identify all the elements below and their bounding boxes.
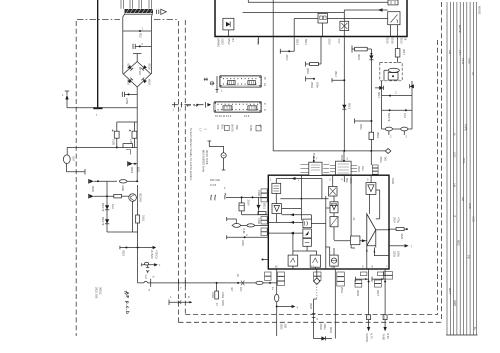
svg-text:2159: 2159 bbox=[125, 98, 129, 104]
resistor vertical right column bbox=[397, 37, 399, 49]
IC internal: box H bbox=[310, 255, 320, 267]
bus wire 6 bbox=[463, 2, 465, 335]
svg-text:6522: 6522 bbox=[329, 327, 333, 333]
bridge diode top-right bbox=[141, 65, 147, 71]
fuse F1 on rail bbox=[123, 144, 133, 148]
CN2 corner pins bbox=[215, 102, 216, 103]
svg-text:DIAL: DIAL bbox=[462, 158, 466, 164]
svg-text:6514: 6514 bbox=[377, 92, 381, 98]
svg-text:8.5V: 8.5V bbox=[386, 334, 390, 340]
svg-text:IF: IF bbox=[453, 215, 457, 218]
bus wire 3 bbox=[453, 2, 455, 335]
mains rail wire bbox=[67, 107, 138, 109]
svg-text:630 11D: 630 11D bbox=[210, 178, 220, 182]
smoothing caps top rail bbox=[117, 122, 137, 131]
resistor Rv in rail bbox=[136, 215, 140, 223]
dash-dot frame outer right vertical (x=178) bbox=[177, 21, 179, 322]
connector CN2 outer bbox=[214, 101, 262, 112]
stub row y=79 bbox=[306, 76, 314, 81]
svg-text:AF R: AF R bbox=[461, 58, 465, 64]
svg-text:100µ: 100µ bbox=[323, 324, 327, 330]
cap box in loop bbox=[239, 203, 244, 211]
svg-text:4µ7: 4µ7 bbox=[144, 275, 148, 280]
bus wire 7 bbox=[466, 2, 468, 335]
oval cap at top right bbox=[387, 128, 389, 130]
diode at bottom bbox=[321, 336, 325, 340]
svg-text:30mV TAPE: 30mV TAPE bbox=[205, 150, 209, 165]
svg-text:BY: BY bbox=[231, 39, 235, 43]
top small box M1 bbox=[388, 0, 398, 5]
svg-text:15: 15 bbox=[263, 77, 267, 80]
svg-text:NOISE: NOISE bbox=[478, 6, 482, 15]
arrow ticks bbox=[211, 195, 216, 201]
bus wire 8 bbox=[469, 2, 471, 335]
diode on x=344 bbox=[342, 105, 346, 109]
test stub connector bbox=[169, 300, 192, 306]
secondary rung 1 bbox=[123, 30, 152, 32]
svg-text:2155: 2155 bbox=[112, 139, 116, 145]
divider chain below rail bbox=[216, 283, 218, 291]
crossing ticks bbox=[312, 313, 316, 317]
row 1: diode input bbox=[88, 179, 90, 184]
lamp return wire bbox=[67, 164, 85, 172]
svg-text:2511: 2511 bbox=[359, 124, 363, 130]
svg-text:LED: LED bbox=[453, 152, 457, 157]
zener diode D2 bbox=[105, 219, 109, 223]
caps below IC right pins bbox=[356, 277, 386, 282]
diamond test terminal bbox=[385, 149, 390, 154]
svg-text:BZX79: BZX79 bbox=[101, 217, 105, 226]
svg-text:2165: 2165 bbox=[257, 190, 261, 196]
svg-text:BZX79: BZX79 bbox=[387, 113, 391, 122]
svg-text:1518: 1518 bbox=[312, 153, 316, 159]
zener diode D1 bbox=[105, 205, 109, 209]
filter block FL1 above IC bbox=[309, 162, 322, 175]
svg-text:3515: 3515 bbox=[357, 54, 361, 60]
wire across to diamond bbox=[273, 150, 385, 152]
IC internal: X box bbox=[329, 187, 338, 197]
svg-text:1µ: 1µ bbox=[271, 287, 275, 290]
svg-text:1520: 1520 bbox=[391, 178, 395, 184]
svg-text:12: 12 bbox=[311, 265, 314, 269]
svg-text:6520: 6520 bbox=[91, 186, 95, 192]
svg-text:100n: 100n bbox=[221, 300, 225, 306]
jack wire down bbox=[222, 158, 226, 170]
svg-text:479 C6: 479 C6 bbox=[155, 250, 159, 259]
svg-text:OSC: OSC bbox=[468, 203, 472, 209]
resistor R oval on row1 bbox=[119, 180, 127, 183]
svg-text:30012: 30012 bbox=[99, 287, 103, 295]
svg-text:220V: 220V bbox=[221, 39, 225, 45]
svg-text:100n: 100n bbox=[397, 251, 401, 257]
bridge diode bot-right bbox=[141, 78, 147, 84]
node dot bbox=[116, 146, 118, 148]
svg-text:220n: 220n bbox=[241, 240, 245, 246]
svg-text:6517: 6517 bbox=[127, 64, 131, 70]
svg-text:AF p.c.b: AF p.c.b bbox=[125, 292, 130, 315]
svg-text:BC548: BC548 bbox=[139, 194, 143, 203]
wire bridge bottom bbox=[136, 87, 138, 108]
CN2 left dash stub bbox=[172, 104, 205, 106]
svg-text:2529: 2529 bbox=[319, 324, 323, 330]
svg-text:RADIO: RADIO bbox=[365, 334, 369, 343]
diode box D1 bbox=[223, 18, 234, 30]
stub arrow right bbox=[277, 306, 292, 308]
bold box outline bbox=[215, 0, 407, 37]
svg-text:B+: B+ bbox=[473, 327, 477, 331]
zener left of loop bbox=[379, 86, 383, 90]
svg-text:REC: REC bbox=[457, 240, 461, 246]
resistor on 3V rail bbox=[237, 282, 239, 284]
capacitor C 4u7 bbox=[146, 265, 149, 273]
label boxes under CN2 bbox=[224, 126, 229, 131]
main bus wire down from box bbox=[272, 0, 274, 151]
svg-text:MOT: MOT bbox=[448, 288, 452, 294]
IC internal: hatch box D bbox=[330, 217, 338, 227]
pin y=259.5 bbox=[263, 259, 269, 261]
svg-text:1083: 1083 bbox=[349, 178, 353, 184]
jumper arc bbox=[144, 281, 148, 283]
row y=237.3 input bbox=[227, 235, 269, 239]
bus wire 9 bbox=[472, 2, 474, 335]
svg-text:2166: 2166 bbox=[257, 218, 261, 224]
svg-text:2524: 2524 bbox=[393, 217, 397, 223]
diode right of loop bbox=[410, 84, 414, 88]
svg-text:B+: B+ bbox=[453, 133, 457, 137]
svg-text:1k5: 1k5 bbox=[384, 157, 388, 162]
svg-text:1n: 1n bbox=[215, 303, 219, 306]
transformer secondary leads bbox=[123, 13, 153, 74]
wire main V rail down bbox=[136, 108, 138, 148]
pilot arrow symbol bbox=[157, 10, 159, 14]
row 2: diode input bbox=[88, 194, 90, 199]
dash-dot frame inner left (x=185) bbox=[184, 20, 186, 315]
resistor in x=371.4 bbox=[369, 132, 374, 139]
diode in loop bbox=[256, 205, 260, 209]
row 3V out B bbox=[138, 248, 155, 267]
svg-text:LF: LF bbox=[259, 125, 263, 128]
IC left pin stacks bbox=[261, 189, 267, 193]
wire bbox=[122, 31, 124, 74]
CN2 key block B bbox=[248, 106, 257, 110]
IC internal: box L bbox=[351, 236, 360, 245]
svg-text:6519: 6519 bbox=[130, 167, 134, 173]
svg-text:6515: 6515 bbox=[148, 79, 152, 85]
loop bottom with ovals bbox=[382, 128, 412, 130]
filter box bbox=[388, 73, 398, 80]
svg-text:5513: 5513 bbox=[296, 39, 300, 45]
svg-text:3516: 3516 bbox=[376, 132, 380, 138]
wire up to IC pin bbox=[334, 269, 336, 339]
svg-text:2523: 2523 bbox=[379, 157, 383, 163]
svg-text:1512: 1512 bbox=[256, 39, 260, 45]
svg-text:3162: 3162 bbox=[211, 292, 215, 298]
wire bbox=[136, 147, 138, 181]
svg-text:12 9: 12 9 bbox=[244, 114, 250, 118]
row 3V out A bbox=[120, 246, 153, 249]
crystal box X1 bbox=[340, 21, 349, 30]
svg-text:MAINS: MAINS bbox=[217, 39, 221, 48]
jack circle bbox=[221, 153, 226, 158]
svg-text:8.7V: 8.7V bbox=[370, 334, 374, 340]
svg-text:3160: 3160 bbox=[121, 185, 125, 191]
capacitor C stub left of bridge output bbox=[122, 92, 137, 97]
svg-text:6512: 6512 bbox=[227, 39, 231, 45]
left resistor chain under box bbox=[318, 37, 321, 65]
capacitor C1154 bbox=[114, 131, 119, 138]
output resistor right of IC bbox=[396, 228, 404, 231]
output line B+ 2 bbox=[384, 269, 386, 330]
svg-text:6513: 6513 bbox=[348, 103, 352, 109]
svg-text:AGC: AGC bbox=[472, 216, 476, 222]
capacitor C1155 bbox=[132, 131, 137, 138]
dash-dot frame inner bottom (y=314.5) bbox=[185, 314, 437, 316]
fuse terminal X bbox=[93, 107, 102, 109]
bead on 3V rail bbox=[256, 281, 263, 284]
wire bridge top feed bbox=[133, 54, 141, 62]
svg-text:5516: 5516 bbox=[391, 38, 395, 44]
svg-text:2822: 2822 bbox=[280, 324, 284, 330]
resistor row y=49 bbox=[352, 46, 355, 53]
svg-text:VOL: VOL bbox=[216, 125, 220, 131]
IC internal: power amp triangle K bbox=[367, 214, 376, 246]
wire down to 3V rail bbox=[137, 265, 139, 283]
loop wires bbox=[382, 81, 412, 129]
svg-text:2510: 2510 bbox=[310, 82, 314, 88]
filter oval bbox=[388, 68, 399, 72]
svg-text:TAPE: TAPE bbox=[464, 124, 468, 131]
CN2 pin dots row2 bbox=[218, 109, 259, 111]
capacitor C2 on rung 2 bbox=[133, 44, 151, 49]
inner line y=5 bbox=[248, 0, 388, 2]
svg-text:BZX79: BZX79 bbox=[101, 203, 105, 212]
zener chain wire bbox=[106, 181, 108, 232]
IC bottom pin stacks bbox=[265, 272, 271, 276]
CN1 left harness bbox=[204, 78, 208, 81]
output line B+ 1 bbox=[368, 269, 370, 330]
dotted continuation under diamond bbox=[316, 284, 318, 299]
svg-text:MUTE: MUTE bbox=[458, 25, 462, 33]
diode on x=371.4 bbox=[369, 55, 373, 59]
stub wire with terminal bbox=[280, 37, 294, 54]
svg-text:L7: L7 bbox=[199, 129, 203, 132]
wire x=344 down bbox=[343, 37, 345, 151]
svg-text:2514: 2514 bbox=[285, 55, 289, 61]
transformer T1 core (hatched bar) bbox=[125, 9, 154, 13]
lamp E07 bbox=[66, 147, 68, 155]
dash-dot frame outer top bbox=[77, 19, 178, 21]
svg-text:3510: 3510 bbox=[306, 68, 310, 74]
svg-text:4k7: 4k7 bbox=[230, 287, 234, 292]
svg-text:15 10 11 13 6: 15 10 11 13 6 bbox=[215, 114, 232, 118]
IC internal: tri box C bbox=[330, 202, 338, 213]
svg-text:6516: 6516 bbox=[127, 79, 131, 85]
bottom tie wire bbox=[107, 231, 138, 233]
bus wire 4 bbox=[456, 2, 458, 335]
IC outline bbox=[268, 175, 389, 269]
wire bbox=[294, 19, 318, 37]
svg-text:2526: 2526 bbox=[356, 290, 360, 296]
svg-text:2822 265: 2822 265 bbox=[95, 287, 99, 299]
svg-text:2164: 2164 bbox=[247, 200, 251, 206]
svg-text:MEASURED 1kHz: MEASURED 1kHz bbox=[202, 150, 206, 173]
svg-text:10µ: 10µ bbox=[361, 166, 365, 171]
svg-text:0.3 8: 0.3 8 bbox=[210, 183, 216, 187]
svg-text:TAPE: TAPE bbox=[382, 334, 386, 341]
svg-text:104: 104 bbox=[239, 287, 243, 292]
dash-dot frame outer left bbox=[75, 21, 77, 336]
svg-text:GND: GND bbox=[453, 300, 457, 306]
jumper bar bbox=[150, 279, 152, 287]
svg-text:AF L: AF L bbox=[458, 50, 462, 56]
svg-text:100n: 100n bbox=[316, 82, 320, 88]
svg-text:16: 16 bbox=[263, 83, 267, 86]
transistor TS1 bbox=[129, 194, 137, 202]
wire bbox=[137, 185, 139, 248]
relay box K1 bbox=[318, 13, 327, 23]
switch box S1 bbox=[388, 12, 400, 25]
bridge diode top-left bbox=[128, 65, 134, 71]
IC internal: tri box B bbox=[272, 204, 282, 214]
CN1 key block B bbox=[248, 81, 255, 85]
labels above IC right bbox=[370, 151, 372, 165]
inner line y=12.6 bbox=[243, 12, 345, 14]
svg-text:3521: 3521 bbox=[400, 234, 404, 240]
svg-text:C12: C12 bbox=[111, 204, 115, 209]
dashed filter enclosure bbox=[380, 63, 402, 81]
svg-text:TAPE: TAPE bbox=[249, 125, 253, 132]
bridge rectifier GR1 bbox=[123, 62, 150, 88]
bus wire 5 bbox=[459, 2, 461, 335]
resistor R box row2 bbox=[114, 195, 122, 198]
stub at 344 bbox=[332, 78, 344, 82]
diode D BZX at V rail bbox=[127, 161, 129, 166]
connector CN1 outer bbox=[219, 76, 261, 88]
svg-text:RES: RES bbox=[122, 251, 126, 257]
IC internal: box G bbox=[288, 255, 298, 266]
IC internal: tri box J bbox=[366, 183, 376, 195]
CN1 corner pins bbox=[220, 76, 221, 77]
input loop left of IC bbox=[226, 197, 267, 214]
diamond under pin bbox=[314, 278, 320, 284]
svg-text:Tuned in Mono in Radio, TA and: Tuned in Mono in Radio, TA and St. posit… bbox=[189, 128, 193, 181]
junction dots bbox=[343, 150, 345, 152]
mains bold wire bbox=[97, 0, 99, 108]
bus wire 10 bbox=[476, 2, 478, 335]
bus bottom tie bbox=[446, 334, 477, 336]
svg-text:BASS: BASS bbox=[231, 125, 235, 132]
svg-text:2522: 2522 bbox=[357, 166, 361, 172]
svg-text:BY164: BY164 bbox=[138, 67, 142, 76]
stub y=121 bbox=[355, 119, 372, 124]
filter block FL2 above IC bbox=[336, 161, 352, 175]
svg-text:5515: 5515 bbox=[386, 38, 390, 44]
3V rail wire bbox=[138, 282, 277, 284]
svg-text:GND: GND bbox=[468, 58, 472, 64]
inner wire with arrow bbox=[327, 10, 387, 21]
svg-text:TDA: TDA bbox=[345, 178, 349, 184]
mains plug arrow terminal bbox=[66, 98, 68, 108]
svg-text:2x BZX: 2x BZX bbox=[150, 250, 154, 259]
lamp rail wire bbox=[67, 146, 123, 148]
svg-text:2531: 2531 bbox=[340, 287, 344, 293]
wire chain to diode bbox=[314, 299, 332, 339]
svg-text:3513: 3513 bbox=[400, 38, 404, 44]
CN1 pin dots row2 bbox=[223, 83, 259, 85]
bus wire 1 bbox=[446, 2, 448, 335]
svg-text:BAL: BAL bbox=[221, 125, 225, 131]
bridge diode bot-left bbox=[127, 78, 133, 84]
CN2 pin dots row1 bbox=[218, 103, 259, 105]
svg-text:2513: 2513 bbox=[328, 39, 332, 45]
svg-text:2528: 2528 bbox=[309, 303, 313, 309]
svg-text:16: 16 bbox=[275, 265, 278, 269]
CN1 pin dots row1 bbox=[223, 78, 259, 80]
dash-dot frame far right outer bbox=[441, 2, 443, 322]
resistor stub into left edge bbox=[258, 212, 266, 215]
svg-text:3514: 3514 bbox=[334, 71, 338, 77]
pin lead 1512 bbox=[258, 37, 260, 45]
svg-text:TVY: TVY bbox=[337, 39, 341, 44]
svg-text:TRE: TRE bbox=[235, 125, 239, 131]
svg-text:2525: 2525 bbox=[393, 251, 397, 257]
svg-text:E07: E07 bbox=[72, 157, 76, 162]
svg-text:3161: 3161 bbox=[142, 215, 146, 221]
IC internal: theta box E bottom bbox=[330, 255, 339, 266]
IC internal: box A rec bbox=[272, 183, 281, 193]
pin column x=276.7 bbox=[276, 269, 278, 294]
dash-dot frame inner right bbox=[437, 40, 439, 315]
svg-text:6521: 6521 bbox=[263, 203, 267, 209]
svg-text:470µ: 470µ bbox=[397, 217, 401, 223]
svg-text:R12: R12 bbox=[139, 33, 143, 38]
row y=225.4 input bbox=[227, 217, 237, 225]
svg-text:PB: PB bbox=[467, 255, 471, 259]
output pin arrow y=245.8 bbox=[389, 245, 405, 247]
svg-text:1519: 1519 bbox=[340, 155, 344, 161]
svg-text:5514: 5514 bbox=[304, 39, 308, 45]
svg-text:C12: C12 bbox=[403, 113, 407, 118]
microphone jack wire bbox=[209, 141, 223, 153]
emitter wire bbox=[132, 201, 134, 232]
svg-text:ST: ST bbox=[471, 72, 475, 76]
IC internal: tall box F bbox=[303, 219, 312, 228]
svg-text:265: 265 bbox=[284, 324, 288, 329]
svg-text:3517: 3517 bbox=[402, 49, 406, 55]
svg-text:2527: 2527 bbox=[376, 290, 380, 296]
CN1 key block A bbox=[228, 81, 235, 85]
bus wire 2 bbox=[449, 2, 451, 335]
dash-dot frame outer bottom (y=322) bbox=[178, 321, 441, 323]
IC internal wires bbox=[276, 179, 322, 199]
vertical feed x=371.4 bbox=[370, 49, 372, 132]
frame crossing tick 7 bbox=[178, 280, 185, 286]
transformer T1 primary taps bbox=[121, 0, 151, 9]
svg-text:2163: 2163 bbox=[221, 292, 225, 298]
CN2 key block A bbox=[223, 106, 232, 110]
svg-text:6518: 6518 bbox=[148, 64, 152, 70]
